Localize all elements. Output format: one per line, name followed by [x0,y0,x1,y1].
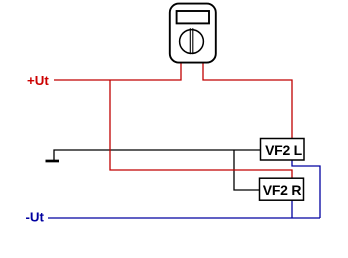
svg-text:+Ut: +Ut [27,73,49,88]
svg-text:VF2 R: VF2 R [263,182,302,198]
svg-text:-Ut: -Ut [26,210,45,225]
svg-text:VF2 L: VF2 L [265,142,303,158]
